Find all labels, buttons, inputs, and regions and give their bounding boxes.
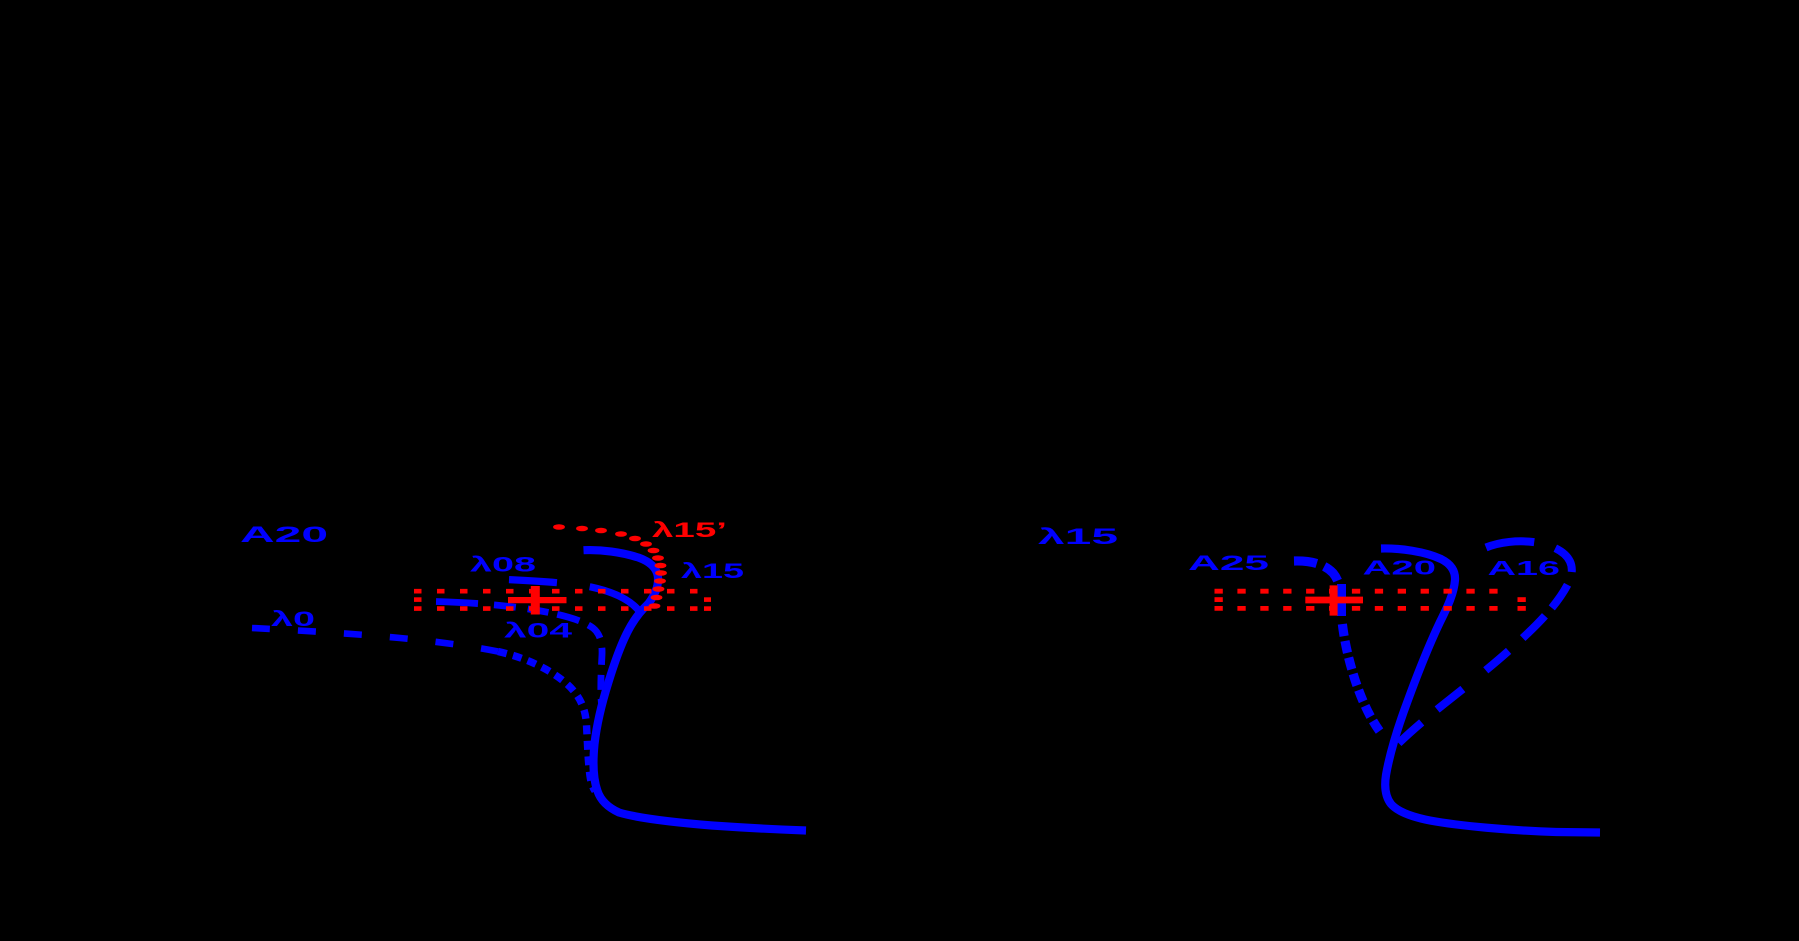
curve A25 segment behind right cross <box>1337 584 1346 616</box>
red cross marker (left panel) <box>531 586 540 615</box>
svg-text:A16: A16 <box>1488 558 1561 580</box>
svg-text:λ15’: λ15’ <box>652 519 727 542</box>
svg-text:A20: A20 <box>240 522 328 547</box>
svg-text:A25: A25 <box>1188 551 1269 575</box>
svg-text:λ15: λ15 <box>681 560 745 583</box>
curve lambda0 dashed shallow part (left panel) <box>252 628 498 652</box>
red dotted curve lambda15' (left panel) <box>553 524 667 609</box>
curve A16 long-dash (right panel) <box>1390 541 1572 752</box>
curve lambda0 dashed steep part (left panel) <box>498 652 595 792</box>
curve A25 square-dotted (right panel) <box>1294 561 1381 733</box>
red dotted band bottom row (right panel) <box>1215 606 1503 611</box>
red dotted band top row (left panel) <box>414 589 699 594</box>
svg-text:A20: A20 <box>1363 558 1437 580</box>
svg-text:λ15: λ15 <box>1038 524 1118 549</box>
svg-text:λ04: λ04 <box>504 620 573 643</box>
red band end dots (left panel) <box>704 606 711 611</box>
red band end dots (right panel) <box>1518 606 1526 611</box>
curve lambda04 dashed (left panel) <box>436 602 602 705</box>
curve A20 solid (right panel main curve) <box>1381 548 1600 832</box>
red dotted band bottom row (left panel) <box>414 606 698 611</box>
curve lambda15 solid (left panel main curve) <box>584 550 807 830</box>
svg-text:λ0: λ0 <box>271 608 315 631</box>
svg-text:λ08: λ08 <box>470 554 537 577</box>
red dotted band top row (right panel) <box>1215 589 1499 594</box>
red cross marker (right panel) <box>1330 585 1338 615</box>
curve lambda08 long-dash (left panel) <box>509 580 644 618</box>
